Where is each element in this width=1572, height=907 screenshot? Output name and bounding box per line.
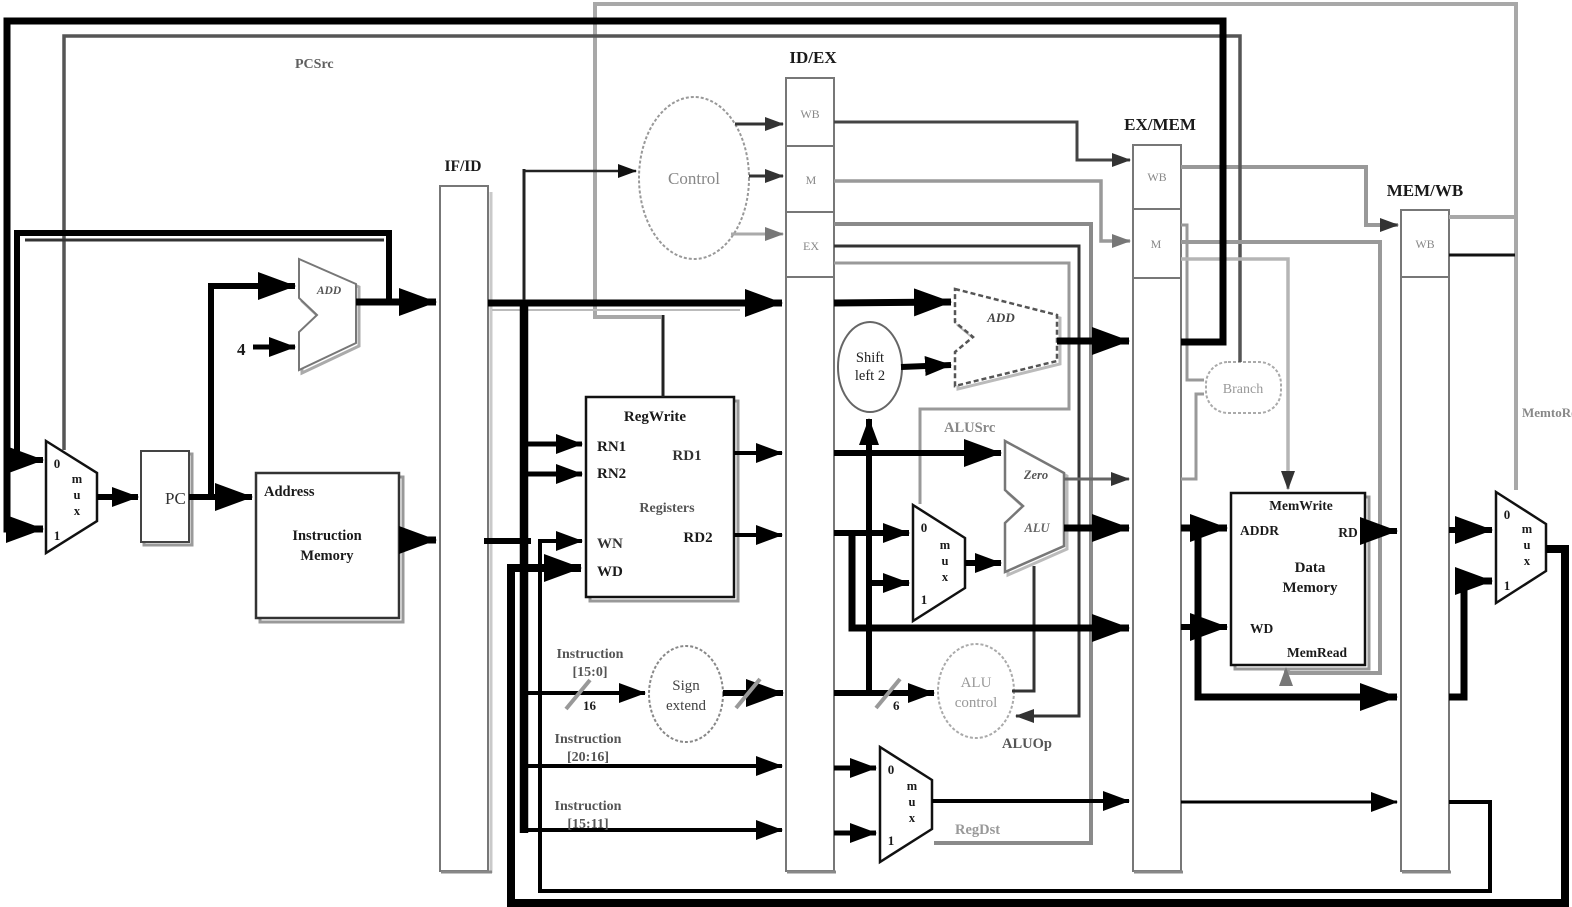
svg-text:m: m bbox=[1522, 522, 1533, 536]
wire instruction 15:11 ID/EX to RegDst mux 1 bbox=[834, 831, 876, 836]
svg-text:u: u bbox=[74, 488, 81, 502]
wire MemWrite EX/MEM to Data Memory bbox=[1181, 259, 1288, 489]
svg-text:WB: WB bbox=[800, 107, 819, 121]
wire branch adder out to EX/MEM bbox=[1057, 338, 1129, 345]
wire branch target feedback (EX/MEM to PC mux 1) bbox=[7, 21, 1223, 529]
svg-text:ADDR: ADDR bbox=[1240, 523, 1279, 538]
wire adder out to IF/ID bbox=[356, 299, 436, 306]
svg-text:[20:16]: [20:16] bbox=[567, 750, 609, 765]
svg-text:1: 1 bbox=[888, 833, 895, 848]
svg-text:RD1: RD1 bbox=[672, 448, 701, 464]
svg-text:RN2: RN2 bbox=[597, 466, 626, 482]
svg-text:Address: Address bbox=[264, 484, 315, 500]
svg-text:Branch: Branch bbox=[1223, 382, 1263, 397]
svg-text:left 2: left 2 bbox=[855, 368, 885, 384]
svg-text:m: m bbox=[72, 472, 83, 486]
svg-text:Registers: Registers bbox=[639, 501, 695, 516]
svg-text:u: u bbox=[909, 795, 916, 809]
wire sign-extended to ALUSrc mux 1 bbox=[869, 580, 909, 586]
wire instruction to Control bbox=[524, 170, 636, 173]
wire ALU result MEM/WB to final mux 1 bbox=[1449, 581, 1492, 697]
wire Instruction Memory to IF/ID bbox=[399, 537, 436, 544]
svg-text:WN: WN bbox=[597, 536, 623, 552]
data memory bbox=[1231, 493, 1369, 669]
pipeline register ID/EX bbox=[786, 78, 836, 872]
wire Data Memory RD to MEM/WB bbox=[1365, 528, 1397, 534]
svg-text:M: M bbox=[806, 173, 817, 187]
svg-text:M: M bbox=[1151, 237, 1162, 251]
svg-text:Control: Control bbox=[668, 169, 720, 188]
svg-text:[15:0]: [15:0] bbox=[573, 665, 608, 680]
wire RegWrite feedback (MEM/WB WB to Registers, grey loop via top) bbox=[595, 4, 1516, 317]
adder ADD (branch target) bbox=[955, 289, 1060, 389]
svg-text:WD: WD bbox=[597, 564, 623, 580]
svg-text:0: 0 bbox=[921, 520, 928, 535]
wire WB bundle EX/MEM to MEM/WB bbox=[1181, 167, 1398, 225]
pipeline register IF/ID bbox=[440, 186, 492, 873]
svg-text:RN1: RN1 bbox=[597, 439, 626, 455]
svg-text:MemtoReg: MemtoReg bbox=[1522, 405, 1572, 420]
wire write register number loop (MEM/WB to WN) bbox=[540, 541, 1490, 891]
svg-text:ALUSrc: ALUSrc bbox=[944, 420, 996, 436]
svg-text:Instruction: Instruction bbox=[557, 647, 624, 662]
svg-text:IF/ID: IF/ID bbox=[444, 158, 481, 175]
wire Control to ID/EX M bbox=[749, 175, 783, 178]
wire WB bundle ID/EX to EX/MEM bbox=[834, 122, 1130, 160]
svg-text:m: m bbox=[907, 779, 918, 793]
wire bus to RN2 bbox=[524, 472, 582, 477]
svg-text:Instruction: Instruction bbox=[555, 732, 622, 747]
wire instruction 15:11 to ID/EX bbox=[524, 828, 782, 832]
wire PC+4 feedback (adder out to PC mux 0) bbox=[17, 233, 389, 460]
svg-text:Instruction: Instruction bbox=[292, 528, 361, 544]
svg-text:0: 0 bbox=[1504, 507, 1511, 522]
wire PC mux out to PC bbox=[97, 494, 138, 500]
wire ALU control to ALU bbox=[1012, 566, 1034, 691]
svg-text:Zero: Zero bbox=[1023, 468, 1048, 482]
wire WN stub bbox=[484, 538, 531, 544]
wire Zero flag EX/MEM to Branch oval bbox=[1181, 394, 1204, 479]
wire sign-extended up to shift left 2 bbox=[866, 419, 872, 693]
ALU bbox=[1005, 441, 1067, 575]
bus width slash 6 bbox=[876, 679, 900, 708]
svg-text:6: 6 bbox=[893, 698, 900, 713]
wire EX control RegDst (grey box route) bbox=[834, 224, 1091, 843]
svg-text:u: u bbox=[1524, 538, 1531, 552]
bus width slash 16 bbox=[566, 680, 590, 709]
wire MemtoReg select (grey vertical to final mux) bbox=[1514, 217, 1518, 490]
wire ALU result to EX/MEM bbox=[1064, 525, 1129, 532]
svg-text:u: u bbox=[942, 554, 949, 568]
svg-text:RD2: RD2 bbox=[683, 530, 712, 546]
svg-text:Instruction: Instruction bbox=[555, 799, 622, 814]
wire MemtoReg segment from MEM/WB (black) bbox=[1449, 254, 1515, 257]
svg-text:x: x bbox=[74, 504, 81, 518]
wire instruction 20:16 ID/EX to RegDst mux 0 bbox=[834, 766, 876, 771]
wire write data EX/MEM to Data Memory WD bbox=[1181, 624, 1227, 630]
svg-text:1: 1 bbox=[921, 592, 928, 607]
svg-text:ALU: ALU bbox=[961, 675, 992, 691]
wire M bundle ID/EX to EX/MEM bbox=[834, 181, 1130, 241]
wire sign extend out to ID/EX bbox=[723, 690, 783, 696]
wire instruction main line IF/ID to ID/EX bbox=[488, 300, 782, 307]
wire write register EX/MEM to MEM/WB bbox=[1181, 801, 1397, 804]
branch AND oval bbox=[1206, 362, 1281, 413]
wire read data MEM/WB to final mux 0 bbox=[1449, 527, 1492, 533]
wire RD1 Registers to ID/EX bbox=[734, 451, 782, 455]
wire RD1 ID/EX to ALU bbox=[834, 450, 1001, 456]
svg-text:4: 4 bbox=[237, 340, 246, 359]
svg-text:16: 16 bbox=[583, 698, 597, 713]
svg-text:PCSrc: PCSrc bbox=[295, 57, 334, 72]
svg-text:m: m bbox=[940, 538, 951, 552]
svg-text:WB: WB bbox=[1415, 237, 1434, 251]
svg-text:1: 1 bbox=[54, 528, 61, 543]
pipeline register EX/MEM bbox=[1133, 145, 1183, 872]
wire RD2 down to EX/MEM write data bbox=[852, 533, 1129, 628]
wire instruction 15:0 to sign extend bbox=[524, 691, 645, 695]
wire instruction 20:16 to ID/EX bbox=[524, 764, 782, 768]
svg-text:ADD: ADD bbox=[316, 285, 342, 297]
wire Branch signal EX/MEM M to Branch oval bbox=[1181, 225, 1204, 380]
wire PC to adder bbox=[211, 286, 295, 497]
wire instruction bus vertical bbox=[523, 169, 526, 303]
svg-text:Memory: Memory bbox=[300, 548, 354, 564]
wire RegDst mux out to EX/MEM bbox=[932, 799, 1129, 803]
wire bus to RN1 bbox=[524, 442, 582, 447]
instruction memory bbox=[256, 473, 403, 622]
wire write data loop (final mux to WD) bbox=[511, 549, 1565, 903]
adder ADD (PC+4) bbox=[299, 259, 359, 373]
svg-text:[15:11]: [15:11] bbox=[567, 817, 608, 832]
svg-text:extend: extend bbox=[666, 698, 706, 714]
svg-text:WD: WD bbox=[1250, 621, 1274, 636]
svg-text:WB: WB bbox=[1147, 170, 1166, 184]
svg-text:MEM/WB: MEM/WB bbox=[1387, 181, 1464, 200]
svg-text:Shift: Shift bbox=[856, 350, 884, 366]
wire PC+4 feedback shadow bbox=[25, 239, 384, 242]
svg-text:EX: EX bbox=[803, 239, 819, 253]
wire PC+4 ID/EX to branch adder bbox=[834, 302, 951, 303]
svg-text:RD: RD bbox=[1338, 525, 1358, 540]
svg-text:x: x bbox=[1524, 554, 1531, 568]
ALU control oval bbox=[938, 644, 1014, 738]
wire Zero ALU to EX/MEM bbox=[1064, 478, 1129, 481]
wire sign-extended to ALU control bbox=[834, 690, 934, 696]
svg-text:0: 0 bbox=[888, 762, 895, 777]
svg-text:Data: Data bbox=[1295, 560, 1326, 576]
wire shift left 2 to branch adder bbox=[901, 365, 951, 367]
wire PC to Instruction Memory bbox=[189, 494, 252, 500]
wire RD2 Registers to ID/EX bbox=[734, 533, 782, 537]
wire ALU result EX/MEM to Data Memory ADDR bbox=[1181, 525, 1227, 532]
svg-text:ID/EX: ID/EX bbox=[789, 48, 837, 67]
register PC bbox=[141, 451, 192, 545]
svg-text:RegWrite: RegWrite bbox=[624, 409, 687, 425]
svg-text:MemRead: MemRead bbox=[1287, 645, 1347, 660]
registers block bbox=[586, 397, 738, 601]
mux MemtoReg (0/1) bbox=[1496, 492, 1546, 603]
svg-text:ALU: ALU bbox=[1024, 521, 1051, 535]
wire ALU result bypass down to MEM/WB bbox=[1198, 528, 1397, 697]
svg-text:x: x bbox=[942, 570, 949, 584]
svg-text:EX/MEM: EX/MEM bbox=[1124, 115, 1196, 134]
wire ALUSrc mux out to ALU bbox=[965, 560, 1001, 566]
mux PC source (0/1) bbox=[46, 441, 97, 553]
wire EX control ALUSrc bbox=[834, 263, 1069, 504]
control unit oval bbox=[639, 97, 749, 259]
svg-text:ALUOp: ALUOp bbox=[1002, 736, 1052, 752]
wire RegWrite drop into Registers bbox=[662, 315, 665, 397]
wire RD2 ID/EX to ALUSrc mux 0 bbox=[834, 530, 909, 536]
sign extend oval bbox=[649, 646, 723, 742]
wire MemRead EX/MEM to Data Memory bbox=[1181, 242, 1380, 673]
svg-text:1: 1 bbox=[1504, 578, 1511, 593]
wire EX control ALUOp bbox=[834, 246, 1079, 716]
svg-text:Sign: Sign bbox=[672, 678, 700, 694]
svg-text:Memory: Memory bbox=[1283, 580, 1338, 596]
bus width slash 32 bbox=[736, 679, 760, 708]
wire Control to ID/EX EX bbox=[731, 233, 783, 236]
mux RegDst (0/1) bbox=[880, 747, 932, 862]
pipeline register MEM/WB bbox=[1401, 210, 1451, 872]
wire PCSrc from Branch oval to PC mux select bbox=[64, 36, 1240, 450]
svg-text:control: control bbox=[955, 695, 998, 711]
wire Control to ID/EX WB bbox=[735, 123, 783, 126]
svg-text:RegDst: RegDst bbox=[955, 822, 1000, 838]
svg-text:0: 0 bbox=[54, 456, 61, 471]
svg-text:MemWrite: MemWrite bbox=[1269, 498, 1332, 513]
svg-text:x: x bbox=[909, 811, 916, 825]
mux ALUSrc (0/1) bbox=[913, 505, 965, 621]
svg-text:PC: PC bbox=[165, 489, 186, 508]
svg-text:ADD: ADD bbox=[986, 310, 1015, 325]
shift left 2 oval bbox=[838, 322, 902, 412]
